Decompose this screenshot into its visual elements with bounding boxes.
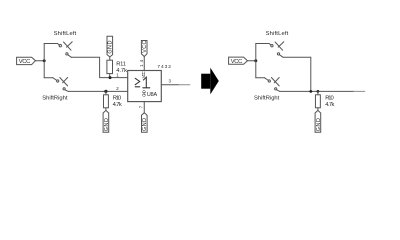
node junction R10 / net N$2 [104, 90, 107, 93]
wire output net stub (light) [179, 84, 190, 86]
wire vertical VCC branch (left) [43, 44, 45, 78]
svg-text:GND: GND [316, 118, 322, 131]
svg-text:ShiftRight: ShiftRight [42, 96, 68, 102]
node VCC junction (left) [43, 59, 46, 62]
svg-text:VCC: VCC [19, 59, 31, 65]
svg-text:2: 2 [116, 86, 119, 91]
svg-text:14: 14 [139, 59, 144, 67]
ground tag GND (below gate U8A) [142, 113, 149, 133]
wire VCC to gate pin 14 [143, 57, 145, 71]
wire ShiftLeft output down to bottom net (right) [283, 57, 311, 91]
wire output net stub (light, right) [354, 90, 365, 92]
svg-text:7432: 7432 [157, 64, 171, 70]
svg-text:4.7k: 4.7k [325, 102, 334, 108]
svg-text:ShiftRight: ShiftRight [254, 96, 280, 102]
wire GND tag to R11 [109, 57, 111, 60]
node junction vertical/bottom net (right) [309, 90, 312, 93]
svg-text:4.7k: 4.7k [113, 102, 122, 108]
ground tag GND (below R10, right circuit) [315, 110, 322, 132]
node junction R10 (right) [317, 90, 320, 93]
switch S ShiftRight (left circuit) [44, 78, 68, 92]
switch S ShiftLeft (right circuit) [256, 42, 284, 57]
wire ShiftRight output to gate pin 2 [68, 90, 127, 92]
wire gate output pin 3 [161, 84, 179, 86]
gate symbol &#8805;1 [135, 77, 150, 88]
wire ShiftRight output net (right) [280, 90, 354, 92]
svg-text:R11: R11 [116, 62, 126, 68]
svg-text:VCC: VCC [142, 41, 148, 53]
svg-text:U8A: U8A [147, 92, 158, 98]
resistor R10 (left circuit) [104, 91, 122, 110]
svg-text:GND: GND [142, 118, 148, 131]
wire vertical VCC branch (right) [255, 44, 257, 78]
ground tag GND (below R10, left circuit) [103, 110, 110, 132]
arrow (transition symbol) [201, 68, 219, 95]
svg-text:R10: R10 [113, 96, 122, 102]
svg-text:ShiftLeft: ShiftLeft [266, 31, 289, 37]
svg-text:VCC: VCC [231, 59, 243, 65]
node junction R11 / net N$1 [109, 76, 112, 79]
svg-text:ShiftLeft: ShiftLeft [54, 31, 77, 37]
svg-text:3: 3 [169, 79, 172, 84]
supply flag VCC (right circuit) [229, 57, 248, 65]
svg-text:R10: R10 [325, 96, 334, 102]
switch S ShiftRight (right circuit) [256, 78, 280, 92]
ground tag GND (above R11) [107, 36, 114, 57]
svg-text:7: 7 [138, 105, 143, 108]
supply flag VCC (above gate U8) [141, 41, 148, 57]
node VCC junction (right) [254, 59, 257, 62]
svg-text:VCC: VCC [141, 71, 146, 78]
svg-text:GND: GND [104, 118, 110, 131]
wire VCC flag to junction (right) [248, 60, 256, 62]
resistor R11 [107, 60, 127, 77]
switch S ShiftLeft (left circuit) [44, 42, 72, 58]
op-amp gate U8A body (7432 OR gate) [128, 71, 162, 102]
wire VCC flag to junction [36, 60, 45, 62]
wire ShiftLeft output to gate pin 1 [71, 57, 127, 77]
wire gate pin 7 to GND [143, 102, 145, 113]
supply flag VCC (left circuit) [17, 57, 36, 65]
svg-text:GND: GND [108, 40, 114, 53]
resistor R10 (right circuit) [315, 91, 334, 110]
